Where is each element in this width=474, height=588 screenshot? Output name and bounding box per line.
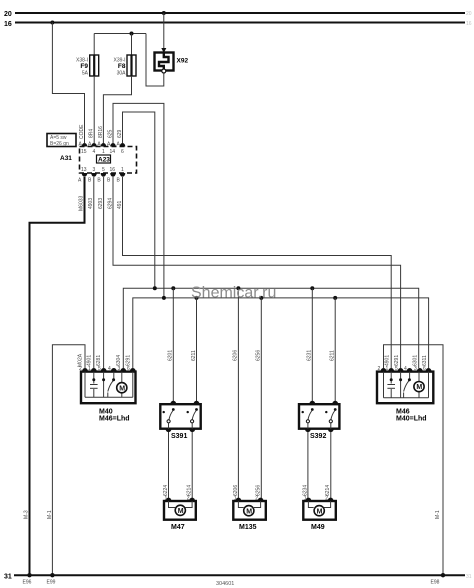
wire F8 bottom to A23 pin1 [103, 76, 131, 143]
svg-text:1: 1 [102, 149, 105, 155]
svg-text:6214: 6214 [325, 485, 331, 496]
arrow into X92 [161, 48, 166, 53]
svg-text:E99: E99 [47, 580, 56, 586]
svg-text:6234: 6234 [302, 485, 308, 496]
wire A23 pin14 loop to line2 [113, 103, 164, 296]
svg-text:16: 16 [4, 21, 12, 28]
svg-text:31: 31 [4, 574, 12, 581]
svg-text:2: 2 [187, 496, 190, 502]
A23 top pin numbers [81, 149, 124, 155]
motor assembly M40 [81, 368, 136, 403]
svg-text:M-3: M-3 [24, 510, 30, 519]
svg-text:M49: M49 [311, 524, 325, 531]
svg-text:F9: F9 [80, 63, 88, 70]
wire S282 pin4 to M49 [330, 432, 332, 498]
wire to S282 pin1 [311, 288, 313, 401]
svg-text:M40: M40 [99, 409, 113, 416]
wire to S281 pin1 [172, 288, 174, 401]
wire X92 bottom return to fuse rail [146, 34, 164, 87]
svg-text:6224: 6224 [163, 485, 169, 496]
svg-text:A31: A31 [60, 155, 72, 162]
svg-text:6281: 6281 [96, 355, 102, 366]
wire X92 top from bus20 [163, 13, 165, 51]
wire A23 pin16 right to M46 [113, 177, 401, 368]
wire A23 pin13 thick ground M-3 to E96 [30, 177, 85, 575]
svg-text:M: M [416, 384, 422, 391]
svg-text:30A: 30A [117, 71, 127, 77]
svg-text:6211: 6211 [191, 350, 197, 361]
svg-text:A23: A23 [98, 157, 110, 164]
svg-text:M02A: M02A [78, 353, 84, 367]
node M135 pin2 stub [259, 296, 263, 300]
svg-text:M6033: M6033 [79, 195, 85, 211]
motor M49 [303, 498, 336, 520]
svg-text:6304: 6304 [116, 355, 122, 366]
svg-text:S391: S391 [171, 433, 187, 440]
wire to M135 pin2 [260, 298, 262, 498]
svg-text:3: 3 [93, 167, 96, 173]
svg-text:6206: 6206 [233, 485, 239, 496]
svg-text:CODE: CODE [79, 124, 85, 139]
node S281 pin1 stub [171, 286, 175, 290]
motor M47 [164, 498, 196, 520]
svg-text:1: 1 [165, 496, 168, 502]
wire bus16 to A23 pin15 (CODE) [52, 23, 84, 144]
svg-text:4903: 4903 [88, 198, 94, 209]
svg-text:5: 5 [102, 167, 105, 173]
node S282 pin2 stub [333, 296, 337, 300]
svg-text:6311: 6311 [422, 355, 428, 366]
svg-text:6291: 6291 [125, 355, 131, 366]
wire S282 pin3 to M49 [307, 432, 309, 498]
cups [82, 368, 136, 372]
wire A23 pin5 down to M40 [103, 177, 105, 368]
distribution line 2 [133, 298, 429, 368]
wire E99 to M40 pin A [52, 345, 85, 575]
svg-text:2: 2 [255, 496, 258, 502]
svg-text:14: 14 [110, 149, 116, 155]
svg-text:4901: 4901 [385, 355, 391, 366]
svg-text:6293: 6293 [98, 198, 104, 209]
svg-text:15: 15 [81, 149, 87, 155]
switch S281 [160, 401, 200, 432]
node E96 [27, 573, 31, 577]
svg-text:E98: E98 [431, 580, 440, 586]
svg-text:20: 20 [4, 11, 12, 18]
svg-text:6291: 6291 [394, 355, 400, 366]
svg-text:625: 625 [107, 129, 113, 138]
cups [381, 368, 432, 372]
svg-text:6: 6 [121, 149, 124, 155]
bus 20 wire [15, 12, 465, 14]
svg-text:M47: M47 [171, 524, 185, 531]
A23 top connector cups [82, 143, 126, 147]
svg-text:8R16: 8R16 [98, 126, 104, 138]
wire M-1 right to M46 pin A [384, 345, 444, 575]
bus 31 wire [14, 574, 465, 576]
wire F9 bottom to A23 pin4 [93, 76, 95, 143]
svg-text:31: 31 [466, 574, 472, 580]
svg-text:1: 1 [121, 167, 124, 173]
svg-text:1: 1 [234, 496, 237, 502]
svg-text:X92: X92 [177, 58, 189, 65]
wire A23 pin6 loop to line1 [123, 112, 155, 287]
svg-text:1: 1 [304, 496, 307, 502]
node E99 [50, 573, 54, 577]
svg-text:8R4: 8R4 [89, 129, 95, 138]
wire to S281 pin2 [196, 298, 198, 401]
A letters above top cups [79, 142, 121, 148]
svg-text:6301: 6301 [412, 355, 418, 366]
M40 pin numbers [79, 366, 130, 372]
node M135 pin1 stub [236, 286, 240, 290]
svg-text:M135: M135 [239, 524, 257, 531]
svg-text:2: 2 [325, 496, 328, 502]
node S282 pin1 stub [310, 286, 314, 290]
svg-text:629: 629 [117, 129, 123, 138]
node on bus 16 [50, 21, 54, 25]
svg-text:491: 491 [117, 200, 123, 209]
svg-text:6211: 6211 [330, 350, 336, 361]
motor assembly M46 [377, 368, 433, 403]
svg-text:4: 4 [93, 149, 96, 155]
fuse top rail [94, 33, 146, 35]
svg-text:5A: 5A [82, 71, 89, 77]
connector A31 [47, 134, 76, 148]
svg-text:6214: 6214 [187, 485, 193, 496]
fuse F9 [90, 55, 99, 76]
svg-text:20: 20 [466, 11, 472, 17]
node on bus 20 [162, 11, 166, 15]
wire S281 pin4 to M47 [191, 432, 193, 498]
svg-text:S392: S392 [310, 433, 326, 440]
svg-text:4: 4 [404, 366, 407, 372]
svg-text:4: 4 [108, 366, 111, 372]
bus 16 wire [15, 22, 465, 24]
wire A23 pin3 down to M40 [93, 177, 95, 368]
svg-text:4901: 4901 [86, 355, 92, 366]
svg-text:M-1: M-1 [435, 510, 441, 519]
distribution line 1 [123, 288, 418, 368]
ECU A23 dashed box [80, 147, 137, 174]
svg-text:13: 13 [81, 167, 87, 173]
svg-text:E96: E96 [23, 580, 32, 586]
svg-text:6256: 6256 [256, 485, 262, 496]
svg-text:M46=Lhd: M46=Lhd [99, 416, 130, 423]
wire F9 top [93, 34, 95, 57]
svg-text:M: M [317, 508, 323, 515]
node pin14 wire on line2 [162, 296, 166, 300]
svg-text:6206: 6206 [233, 350, 239, 361]
node pin6 wire on line1 [153, 286, 157, 290]
A23 bottom connector cups [82, 173, 126, 177]
A/B letters below bottom cups [78, 178, 121, 184]
switch S282 [299, 401, 339, 432]
svg-text:Shemicar.ru: Shemicar.ru [191, 285, 276, 302]
svg-text:M: M [246, 508, 252, 515]
interior [85, 372, 133, 398]
svg-text:M: M [119, 385, 125, 392]
fuse F8 [127, 55, 136, 76]
svg-text:6294: 6294 [107, 198, 113, 209]
svg-text:M-1: M-1 [47, 510, 53, 519]
A23 bottom pin numbers [81, 167, 124, 173]
svg-text:M46: M46 [396, 409, 410, 416]
svg-text:304601: 304601 [216, 581, 234, 587]
label A23 [97, 155, 111, 164]
connector X92 [155, 53, 174, 74]
svg-text:M: M [178, 508, 184, 515]
wire S281 pin3 to M47 [168, 432, 170, 498]
wire to M135 pin1 [237, 288, 239, 498]
svg-text:B=26 gn: B=26 gn [50, 141, 69, 147]
svg-text:16: 16 [110, 167, 116, 173]
node E98 [441, 573, 445, 577]
wire F8 top [131, 34, 133, 57]
M46 pin numbers [378, 366, 427, 372]
svg-text:M40=Lhd: M40=Lhd [396, 416, 427, 423]
interior [384, 372, 429, 398]
svg-text:6256: 6256 [256, 350, 262, 361]
node S281 pin2 stub [195, 296, 199, 300]
svg-text:16: 16 [466, 21, 472, 27]
wire to S282 pin2 [334, 298, 336, 401]
svg-text:2: 2 [378, 366, 381, 372]
svg-text:6201: 6201 [168, 350, 174, 361]
svg-text:F8: F8 [118, 63, 126, 70]
node F8 top [130, 32, 134, 36]
motor M135 [233, 498, 265, 520]
wire A23 pin1 right to M46 [123, 177, 392, 368]
svg-text:6231: 6231 [307, 350, 313, 361]
